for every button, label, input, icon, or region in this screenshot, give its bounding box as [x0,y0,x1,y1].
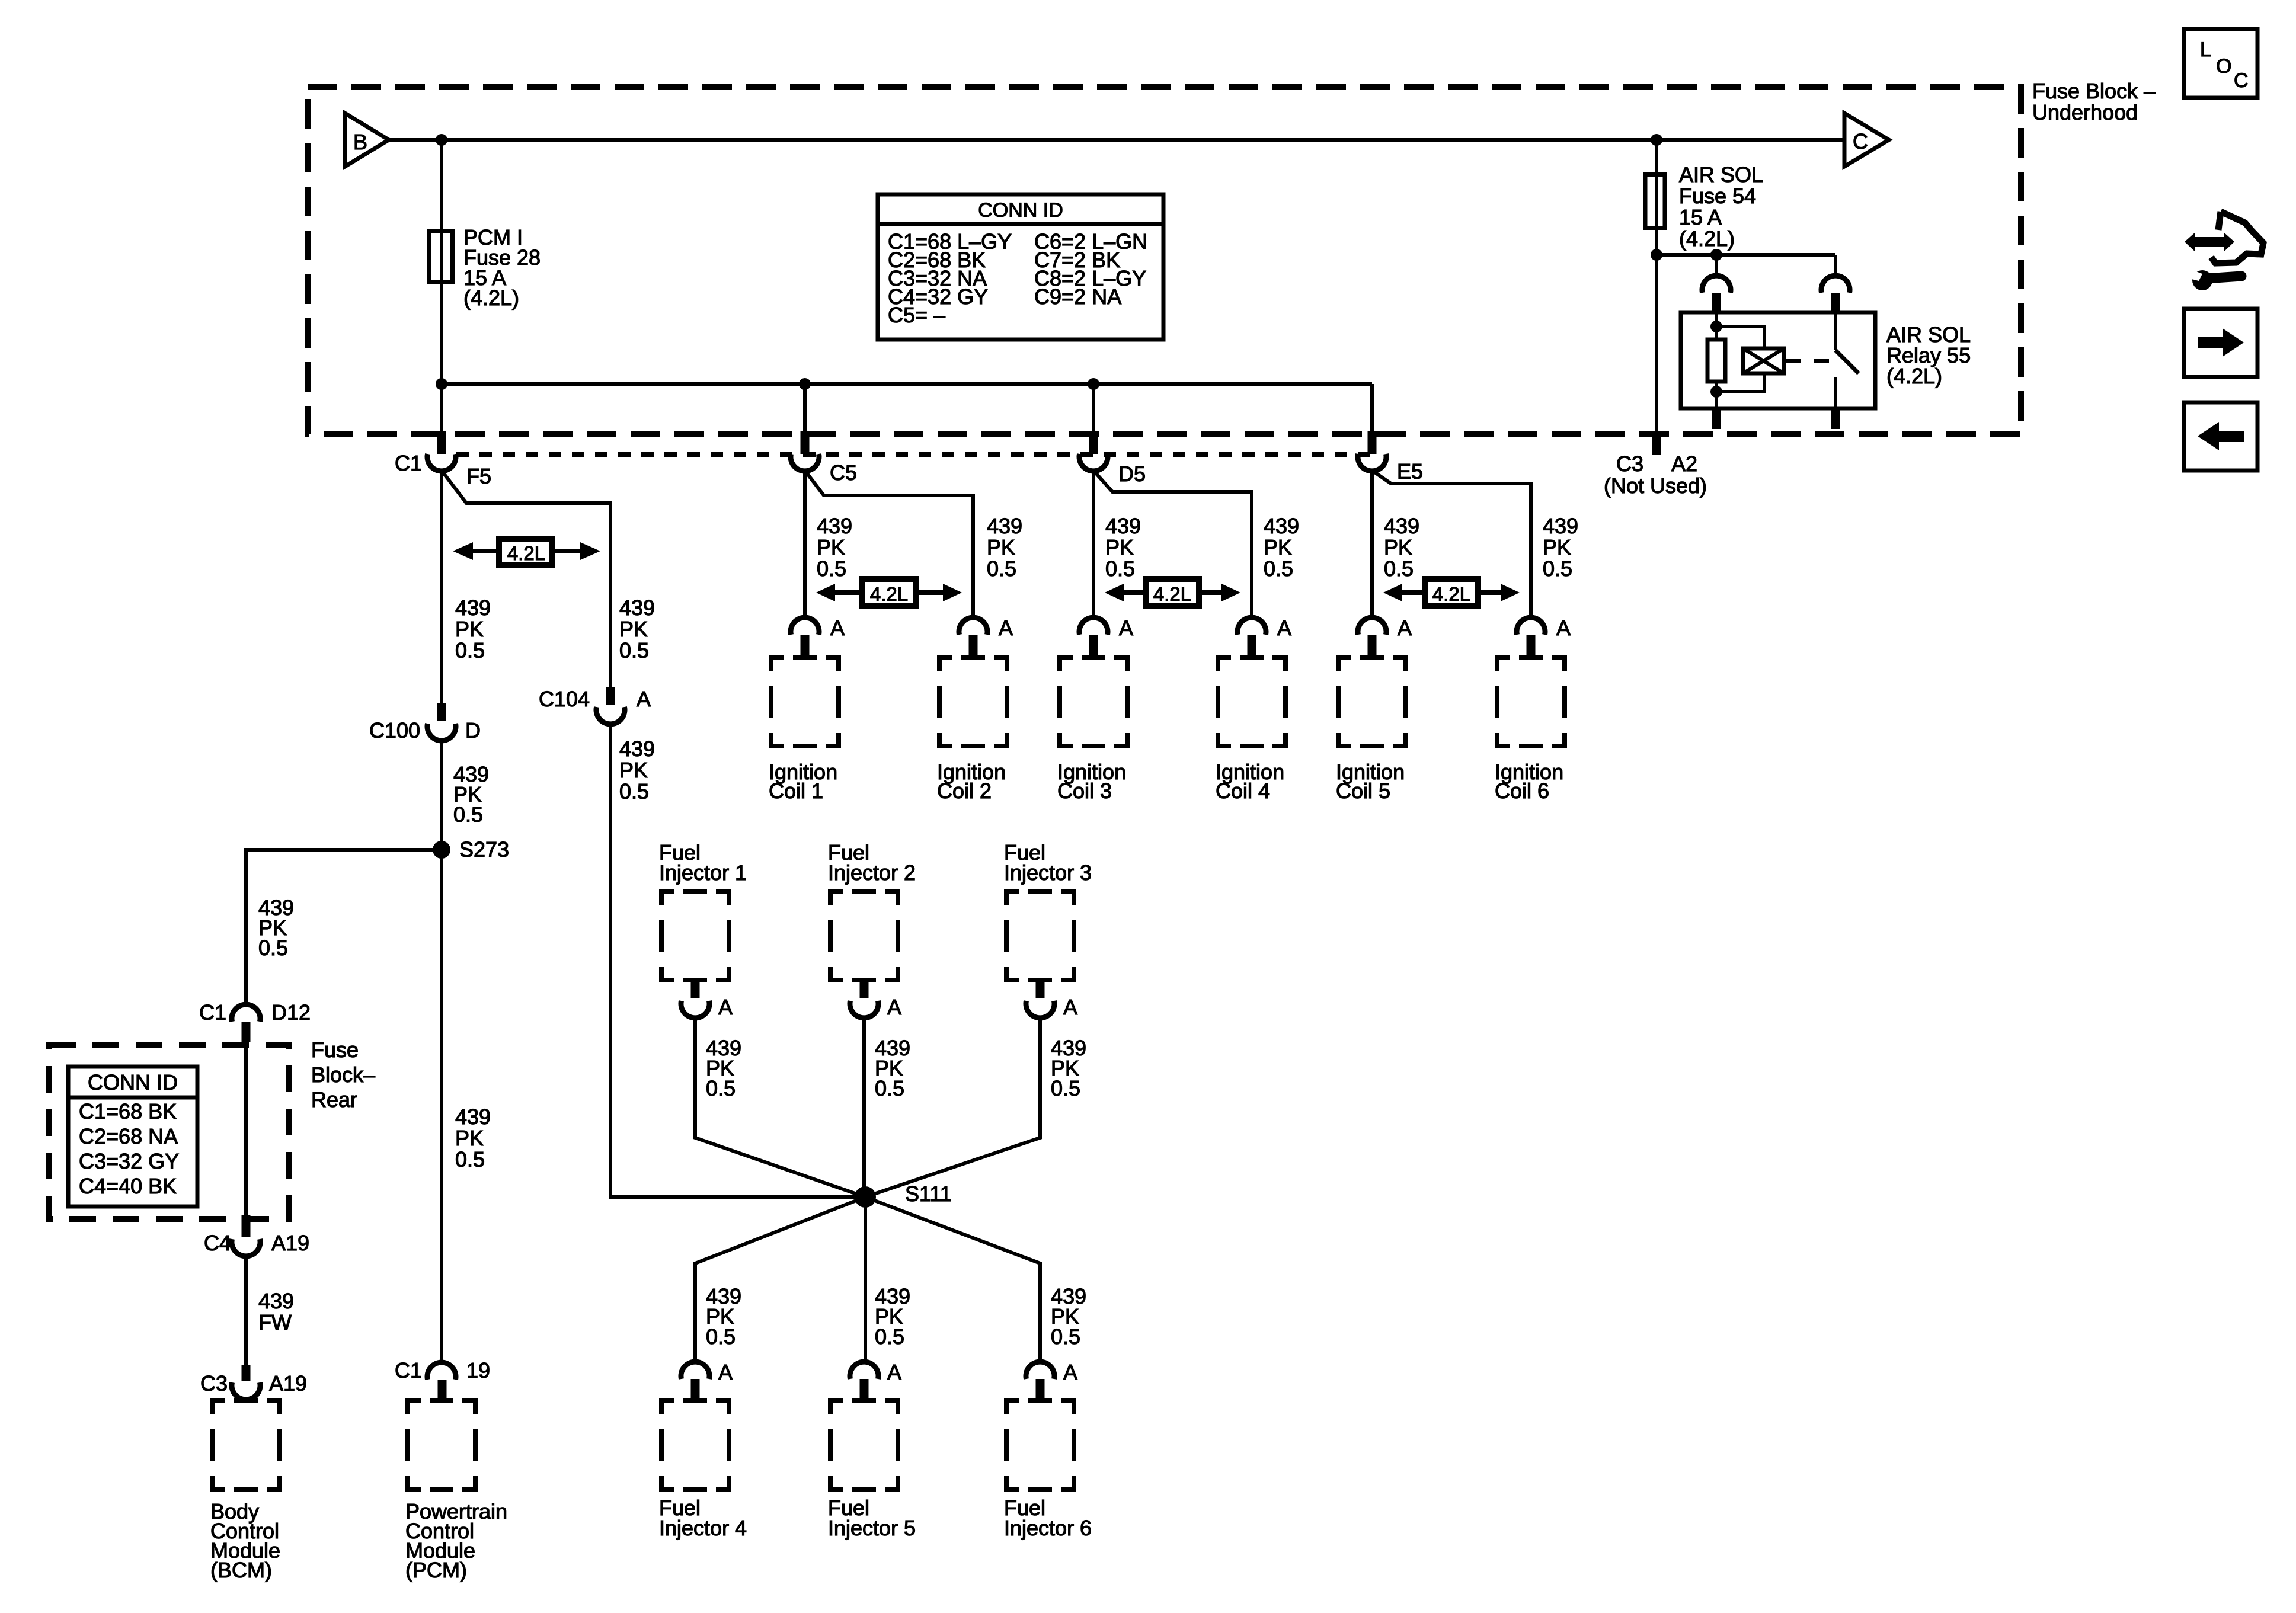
svg-text:Coil 4: Coil 4 [1216,779,1270,803]
svg-text:439: 439 [258,1289,294,1313]
svg-text:A2: A2 [1671,452,1697,476]
svg-text:4.2L: 4.2L [1432,583,1470,605]
svg-text:4.2L: 4.2L [870,583,908,605]
svg-text:Coil 2: Coil 2 [937,779,992,803]
svg-text:439: 439 [619,737,655,761]
svg-text:Coil 6: Coil 6 [1495,779,1549,803]
svg-text:Block–: Block– [311,1062,375,1087]
svg-text:Fuse 54: Fuse 54 [1679,184,1756,208]
svg-text:0.5: 0.5 [1543,556,1572,581]
svg-text:A19: A19 [271,1231,309,1255]
svg-text:0.5: 0.5 [1264,556,1293,581]
svg-text:0.5: 0.5 [453,802,483,827]
svg-text:0.5: 0.5 [455,1147,485,1172]
svg-text:C1: C1 [199,1000,226,1025]
svg-text:C104: C104 [539,687,590,711]
svg-text:A: A [1398,616,1412,640]
svg-text:0.5: 0.5 [1051,1076,1080,1100]
svg-text:C4=40 BK: C4=40 BK [79,1174,177,1198]
svg-text:FW: FW [258,1310,292,1334]
svg-text:0.5: 0.5 [258,936,288,960]
svg-text:D12: D12 [271,1000,311,1025]
svg-text:0.5: 0.5 [619,779,649,804]
svg-text:439: 439 [1264,514,1299,538]
svg-text:0.5: 0.5 [1051,1324,1080,1349]
svg-text:PK: PK [1384,535,1412,559]
svg-text:4.2L: 4.2L [1153,583,1191,605]
svg-text:A: A [1556,616,1571,640]
svg-text:Fuse Block –: Fuse Block – [2032,79,2156,103]
svg-text:Injector 5: Injector 5 [828,1516,916,1540]
svg-text:C3: C3 [1616,452,1643,476]
svg-text:B: B [353,130,367,154]
svg-text:439: 439 [1384,514,1419,538]
svg-text:0.5: 0.5 [455,638,485,663]
svg-text:Coil 1: Coil 1 [769,779,823,803]
svg-text:4.2L: 4.2L [507,542,545,564]
svg-text:S111: S111 [905,1182,952,1206]
svg-text:PK: PK [619,617,648,641]
svg-text:F5: F5 [466,464,491,488]
svg-text:A: A [1063,995,1077,1019]
svg-text:C1: C1 [395,1358,422,1382]
svg-text:0.5: 0.5 [987,556,1016,581]
svg-text:0.5: 0.5 [706,1324,736,1349]
svg-text:PK: PK [817,535,845,559]
svg-text:439: 439 [987,514,1022,538]
svg-text:D5: D5 [1118,462,1146,486]
svg-text:CONN ID: CONN ID [88,1070,178,1094]
svg-text:A: A [830,616,845,640]
svg-text:439: 439 [455,596,491,620]
svg-text:CONN ID: CONN ID [978,199,1063,222]
svg-text:A: A [1119,616,1133,640]
svg-text:O: O [2216,55,2231,78]
svg-text:(BCM): (BCM) [210,1558,272,1582]
svg-text:0.5: 0.5 [1105,556,1135,581]
svg-text:(4.2L): (4.2L) [1886,364,1942,388]
svg-text:C2=68 NA: C2=68 NA [79,1124,178,1148]
svg-text:(Not Used): (Not Used) [1604,473,1707,498]
svg-text:PK: PK [455,1126,484,1150]
svg-text:Injector 3: Injector 3 [1004,860,1092,885]
svg-text:(4.2L): (4.2L) [463,286,519,310]
svg-text:C5= –: C5= – [888,303,945,327]
svg-text:Injector 1: Injector 1 [659,860,747,885]
svg-text:439: 439 [455,1105,491,1129]
svg-text:439: 439 [1105,514,1141,538]
svg-text:(PCM): (PCM) [405,1558,467,1582]
svg-text:439: 439 [619,596,655,620]
svg-text:0.5: 0.5 [875,1324,904,1349]
svg-text:A: A [1277,616,1291,640]
svg-text:S273: S273 [459,837,509,862]
svg-text:C4: C4 [204,1231,231,1255]
svg-text:C: C [2234,69,2249,92]
svg-text:C3: C3 [200,1371,228,1396]
svg-text:A: A [637,687,651,711]
svg-text:Injector 2: Injector 2 [828,860,916,885]
svg-text:PK: PK [1264,535,1292,559]
svg-text:C100: C100 [369,718,420,743]
svg-text:0.5: 0.5 [706,1076,736,1100]
svg-text:(4.2L): (4.2L) [1679,226,1735,251]
svg-text:PK: PK [619,758,648,782]
svg-text:0.5: 0.5 [817,556,846,581]
svg-text:A: A [887,995,901,1019]
svg-text:19: 19 [466,1358,490,1382]
svg-text:A: A [718,1360,733,1384]
svg-text:A: A [1063,1360,1077,1384]
svg-text:15 A: 15 A [1679,205,1722,229]
svg-text:0.5: 0.5 [1384,556,1414,581]
svg-text:0.5: 0.5 [619,638,649,663]
svg-text:0.5: 0.5 [875,1076,904,1100]
svg-text:PK: PK [1543,535,1571,559]
svg-text:C: C [1853,129,1868,153]
svg-text:A: A [718,995,733,1019]
svg-text:L: L [2200,39,2211,61]
svg-text:AIR SOL: AIR SOL [1679,162,1763,187]
svg-text:C1=68 BK: C1=68 BK [79,1099,177,1124]
svg-text:Rear: Rear [311,1087,357,1112]
svg-text:A19: A19 [269,1371,307,1396]
svg-text:E5: E5 [1397,459,1423,484]
svg-text:PK: PK [987,535,1015,559]
svg-text:Fuse: Fuse [311,1038,359,1062]
svg-text:PK: PK [1105,535,1134,559]
svg-text:Coil 3: Coil 3 [1057,779,1112,803]
svg-text:D: D [465,718,481,743]
svg-text:Injector 4: Injector 4 [659,1516,747,1540]
svg-text:C9=2 NA: C9=2 NA [1034,284,1121,309]
svg-text:Underhood: Underhood [2032,100,2138,124]
svg-text:C1: C1 [395,451,422,475]
svg-text:A: A [999,616,1013,640]
svg-text:C5: C5 [830,460,857,485]
svg-text:Coil 5: Coil 5 [1336,779,1390,803]
svg-text:PK: PK [455,617,484,641]
svg-text:439: 439 [817,514,852,538]
svg-text:Injector 6: Injector 6 [1004,1516,1092,1540]
svg-text:439: 439 [1543,514,1578,538]
svg-text:A: A [887,1360,901,1384]
svg-text:C3=32 GY: C3=32 GY [79,1149,179,1173]
